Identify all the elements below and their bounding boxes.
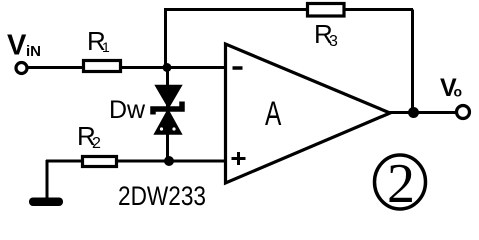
wire: feedback left vertical xyxy=(164,10,167,68)
node: non-inverting input junction xyxy=(164,156,174,166)
wire: non-inverting input row xyxy=(46,160,226,163)
svg-text:2: 2 xyxy=(92,135,101,152)
svg-text:2DW233: 2DW233 xyxy=(118,181,206,211)
wire: output row xyxy=(388,111,456,114)
svg-text:o: o xyxy=(454,84,463,100)
ground xyxy=(29,198,63,207)
svg-text:3: 3 xyxy=(329,33,338,50)
svg-text:Dw: Dw xyxy=(109,96,146,124)
label R1 xyxy=(87,26,110,56)
zener cathode bar with hooks xyxy=(153,102,182,115)
terminal: Vin input circle xyxy=(16,63,27,74)
wire: feedback right vertical xyxy=(411,10,414,113)
figure number 2 (circled) xyxy=(375,153,426,215)
wire: feedback top horizontal xyxy=(164,8,413,11)
label Vin xyxy=(7,30,41,62)
op-amp plus sign xyxy=(232,152,246,165)
resistor R2 xyxy=(83,157,117,167)
svg-text:iN: iN xyxy=(26,43,41,60)
label Vo xyxy=(440,74,462,102)
resistor R3 xyxy=(308,4,345,17)
label R2 xyxy=(77,121,101,152)
svg-text:1: 1 xyxy=(102,39,110,55)
op-amp minus sign xyxy=(233,66,243,70)
svg-text:2: 2 xyxy=(387,153,415,215)
label R3 xyxy=(314,19,338,50)
wire: zener column xyxy=(166,67,169,161)
terminal: Vo output circle xyxy=(457,106,470,119)
zener diode Dw (dual, 2DW233): top diode xyxy=(157,86,181,107)
node: output junction xyxy=(408,107,419,118)
wire: ground drop xyxy=(46,160,49,201)
svg-text:V: V xyxy=(7,30,27,62)
wire: inverting input row xyxy=(27,66,226,69)
op-amp U1 triangle xyxy=(226,44,391,183)
resistor R1 xyxy=(84,61,121,72)
node: inverting input junction xyxy=(163,63,172,72)
svg-text:A: A xyxy=(265,95,282,133)
zener diode Dw: bottom diode xyxy=(156,111,181,134)
